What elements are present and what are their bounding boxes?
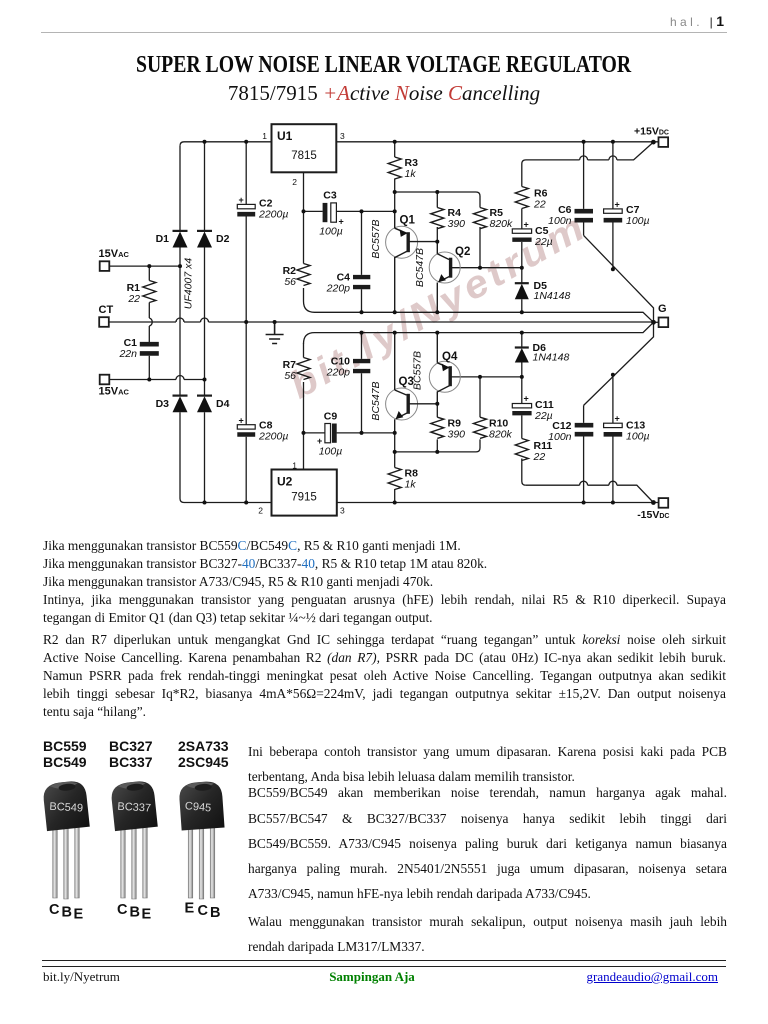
node -15VDC (651, 500, 656, 505)
resistor R9 390 (431, 417, 444, 438)
terminal -15VDC (659, 498, 669, 508)
capacitor C8 2200u electrolytic (237, 425, 255, 429)
resistor R8 1k (388, 468, 401, 490)
junction pin2 / C3 (302, 209, 306, 213)
wire C5 to Q2 base line (521, 242, 523, 268)
wire R11 line to -15V with hops (526, 481, 654, 502)
footer double rule (42, 960, 726, 967)
resistor R11 22 (515, 439, 528, 461)
wire AC input top (109, 265, 180, 267)
wire C12 C13 ground diagonal (584, 322, 654, 405)
subtitle (0, 81, 768, 106)
wire R8 R9 bottom branch (395, 439, 480, 452)
terminal G (659, 318, 669, 328)
wire U1 pin2 / R2 column (303, 172, 305, 263)
wire Q2 base line (451, 267, 522, 269)
circuit schematic (0, 0, 768, 530)
wire C3 line (304, 210, 395, 212)
svg-text:BC549: BC549 (49, 801, 83, 815)
svg-text:BC337: BC337 (117, 801, 151, 815)
junction Q3 collector / lower sense rail (393, 331, 397, 335)
capacitor C9 100u (325, 424, 331, 443)
capacitor C6 100n (575, 211, 594, 220)
svg-text:C945: C945 (184, 800, 211, 814)
junction D4 col / -rail (203, 501, 207, 505)
svg-text:C: C (198, 903, 209, 919)
resistor R10 820k (474, 417, 487, 438)
wire R10 leads (479, 377, 481, 417)
diode D4 (197, 395, 212, 397)
footer texts (43, 969, 120, 985)
wire C2 column (245, 142, 247, 322)
transistor type headers (43, 737, 243, 739)
header page number (612, 13, 724, 29)
junction R8 / R9 branch (393, 450, 397, 454)
svg-text:E: E (142, 907, 152, 923)
junction Q3 base / R9 / Q4 collector (435, 402, 439, 406)
junction C12 / -rail (582, 501, 586, 505)
wire C6 column (583, 142, 585, 236)
wire R3 column (394, 142, 396, 212)
svg-text:C: C (49, 902, 60, 918)
junction C2 / +rail (244, 140, 248, 144)
junction D2 col / +rail (203, 140, 207, 144)
capacitor C5 22u (512, 229, 531, 233)
junction D1 col / AC1 (178, 264, 182, 268)
junction R1 / AC1 (147, 264, 151, 268)
capacitor C2 2200u electrolytic (237, 204, 255, 208)
title (0, 51, 768, 79)
ground (266, 322, 284, 344)
resistor R3 1k (388, 157, 401, 179)
junction C3 line / Q1 emitter (393, 209, 397, 213)
junction R9 bottom (435, 450, 439, 454)
junction ground / CT (273, 320, 277, 324)
junction C5 / D5 / Q2 base (520, 266, 524, 270)
wire C9 line (304, 432, 395, 434)
transistor Q3 BC547B npn (386, 388, 418, 420)
resistor R6 22 (515, 187, 528, 209)
junction C9 line / Q3 emitter (393, 431, 397, 435)
wire R6 to C5 (521, 209, 523, 229)
diode D5 1N4148 (515, 282, 529, 284)
junction Q1 base / R4 / Q2 collector (435, 240, 439, 244)
diode D6 1N4148 (515, 346, 529, 348)
junction R4 top (435, 190, 439, 194)
junction C1 / AC2 (147, 378, 151, 382)
junction C6 / +rail (582, 140, 586, 144)
junction C7 / +rail (611, 140, 615, 144)
diode D2 (197, 230, 212, 232)
wire C8 column (245, 322, 247, 503)
capacitor C3 100u (323, 203, 328, 222)
junction D5 / upper sense rail (520, 310, 524, 314)
diode D1 (173, 230, 188, 232)
wire R4 body leads (436, 192, 438, 242)
svg-text:B: B (130, 905, 140, 921)
wire D2-D4 column (204, 142, 206, 503)
wire R6 top bend to +15V (522, 142, 654, 186)
capacitor C1 22n (140, 344, 159, 353)
IC U2 7915 (272, 470, 337, 516)
wire C7 column (612, 142, 614, 269)
capacitor C11 22u (512, 404, 531, 408)
svg-text:C: C (117, 902, 128, 918)
junction R5 / Q2 base (478, 266, 482, 270)
capacitor C12 100n (575, 425, 594, 434)
transistor package C945 (178, 781, 224, 899)
wire R5 bottom lead (479, 227, 481, 268)
wire C11 R11 column (522, 377, 526, 485)
resistor R5 820k (474, 208, 487, 229)
wire C12 column (583, 405, 585, 502)
svg-text:B: B (210, 905, 220, 921)
wire R9 leads (436, 404, 438, 452)
capacitor C13 100u (604, 423, 623, 427)
junction Q2 emitter / upper sense rail (435, 310, 439, 314)
svg-text:E: E (185, 901, 195, 917)
paragraph block 2 (43, 631, 726, 648)
resistor R1 22 (143, 281, 156, 303)
transistor Q4 BC557B pnp (429, 361, 460, 392)
junction C4 top (360, 209, 364, 213)
terminal 15VAC bottom (100, 375, 110, 385)
IC U1 7815 (272, 124, 337, 172)
wire upper inner sense rail (304, 288, 654, 322)
junction C7 / ground diagonal (611, 267, 615, 271)
wire U2 pin1 / R7 column (303, 343, 305, 470)
junction R3 / +rail (393, 140, 397, 144)
right column paragraphs (248, 743, 727, 760)
resistor R4 390 (431, 208, 444, 229)
wire D5 leads (521, 268, 523, 313)
watermark (281, 203, 596, 410)
wire snubber column R1 C1 with hop over CT (149, 266, 152, 379)
junction D6 / lower sense rail (520, 331, 524, 335)
terminal CT (99, 317, 109, 327)
wire C6 C7 ground diagonal (584, 235, 654, 322)
junction C10 / lower sense rail (360, 331, 364, 335)
node +15VDC (651, 140, 656, 145)
junction C8 / -rail (244, 501, 248, 505)
wire AC input bottom with hop (109, 376, 204, 380)
diode D3 (173, 395, 188, 397)
junction C10 bottom (360, 431, 364, 435)
wire R4 R5 top branch (395, 192, 480, 208)
junction R10 / Q4 base (478, 375, 482, 379)
terminal 15VAC top (100, 261, 110, 271)
wire C4 column (361, 211, 363, 312)
transistor package BC549 (42, 780, 90, 899)
junction C11 / D6 / Q4 base (520, 375, 524, 379)
wire center CT rail with hops (109, 318, 653, 322)
wire D6 leads (521, 333, 523, 377)
junction R3 / R4 branch (393, 190, 397, 194)
transistor Q1 BC557B pnp (386, 226, 418, 258)
resistor R2 56 (297, 264, 310, 286)
junction D4 col / AC2 (203, 378, 207, 382)
junction Q1 collector / upper sense rail (393, 310, 397, 314)
svg-text:B: B (62, 905, 72, 921)
resistor R7 56 (297, 358, 310, 380)
header rule (41, 32, 727, 33)
wire R8 leads (394, 433, 396, 503)
wire Q4 base line (450, 376, 522, 378)
wire top positive rail (180, 142, 659, 146)
node G (651, 320, 656, 325)
wire C13 column (612, 375, 614, 503)
wire lower inner sense rail (304, 322, 654, 343)
capacitor C10 220p (353, 361, 370, 371)
junction pin1 / C9 (302, 431, 306, 435)
junction R8 / -rail (393, 501, 397, 505)
wire C10 column (361, 333, 363, 433)
junction C13 / -rail (611, 501, 615, 505)
junction C2-C8 / CT (244, 320, 248, 324)
svg-text:E: E (74, 907, 84, 923)
capacitor C7 100u (604, 209, 623, 213)
wire bottom negative rail (180, 499, 659, 503)
capacitor C4 220p (353, 277, 370, 287)
junction C13 / ground diagonal (611, 373, 615, 377)
transistor package BC337 (110, 780, 158, 899)
junction Q4 emitter / lower sense rail (435, 331, 439, 335)
terminal +15VDC (659, 137, 669, 147)
transistor Q2 BC547B npn (429, 252, 460, 283)
wire D1-D3 column (179, 146, 181, 499)
junction C4 / upper sense rail (360, 310, 364, 314)
